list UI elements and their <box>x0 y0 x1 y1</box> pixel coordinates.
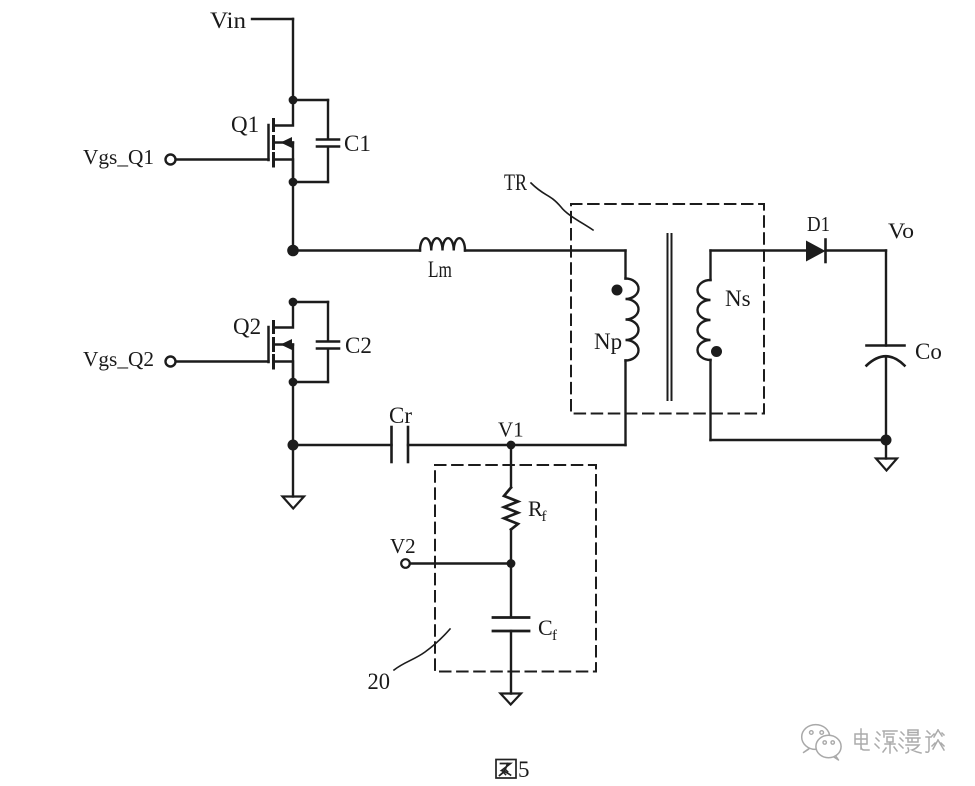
watermark text 电源漫谈 <box>855 729 944 753</box>
svg-text:D1: D1 <box>807 212 830 236</box>
wire C1 bottom to source node <box>293 181 328 183</box>
resistor Rf <box>504 488 518 530</box>
terminal Vgs_Q1 (circle) <box>166 155 176 165</box>
svg-text:Co: Co <box>915 339 942 364</box>
node output bottom junction (dot) <box>881 435 892 446</box>
wire Vgs_Q2 to gate <box>176 360 269 362</box>
wire Ns top to diode <box>711 249 807 251</box>
svg-text:Q2: Q2 <box>233 314 261 339</box>
wire C1 lower lead <box>327 147 329 182</box>
ground (output) <box>876 459 897 471</box>
terminal Vgs_Q2 (circle) <box>166 357 176 367</box>
wire C2 lower lead <box>327 349 329 382</box>
glyph 漫 <box>899 730 921 753</box>
body arrow <box>281 339 293 350</box>
svg-text:TR: TR <box>504 170 528 195</box>
wire Vo corner down to Co <box>885 251 887 346</box>
glyph 源 <box>875 731 897 753</box>
inductor Lm <box>420 238 465 250</box>
glyph 谈 <box>926 730 944 752</box>
wire Q1 source to midpoint <box>292 182 294 251</box>
node junction Q1 drain (dot) <box>289 96 298 105</box>
capacitor Co (polarized) <box>867 344 905 347</box>
wire C2 upper lead <box>327 302 329 341</box>
svg-text:f: f <box>552 628 557 644</box>
ground (feedback) <box>501 694 522 705</box>
polarity dot Np <box>612 285 623 296</box>
transformer core <box>667 234 669 400</box>
leader 20 <box>394 629 450 670</box>
wire Cr to Np bottom <box>408 444 626 446</box>
wire V2 node to Cf <box>510 564 512 618</box>
svg-text:Lm: Lm <box>428 257 452 282</box>
svg-text:f: f <box>542 509 547 525</box>
node V2 junction (dot) <box>507 559 516 568</box>
wire Q1 top to C1 branch <box>293 99 328 101</box>
capacitor C1 <box>317 138 339 141</box>
svg-text:Vgs_Q2: Vgs_Q2 <box>83 347 154 371</box>
wire Cf to ground <box>510 631 512 694</box>
transistor Q2 <box>269 302 294 382</box>
source lead <box>275 160 293 183</box>
node junction Q2 source (dot) <box>289 378 298 387</box>
body lead <box>275 343 293 345</box>
body-source tie <box>292 345 294 383</box>
svg-text:Np: Np <box>594 329 622 354</box>
winding Np <box>624 251 626 279</box>
wire ground node to Cr <box>293 444 392 446</box>
wire to output ground <box>885 440 887 459</box>
wire V2 terminal to node <box>410 562 511 564</box>
wire C2 bottom to source node <box>293 381 328 383</box>
diode D1 <box>806 241 826 262</box>
node ground junction (dot) <box>288 440 299 451</box>
feedback box 20 dashed <box>435 465 596 672</box>
node V1 (dot) <box>507 441 516 450</box>
wire midpoint to Lm <box>293 249 420 251</box>
drain lead <box>275 302 293 328</box>
channel segments <box>272 120 275 131</box>
channel segments <box>272 322 275 333</box>
svg-text:V2: V2 <box>390 534 416 558</box>
svg-text:Vin: Vin <box>210 8 247 33</box>
svg-text:Vo: Vo <box>888 218 914 243</box>
svg-text:V1: V1 <box>498 418 524 442</box>
svg-text:Cr: Cr <box>389 403 412 428</box>
drain lead <box>275 100 293 126</box>
wire secondary bottom rail <box>711 439 887 441</box>
wire C1 upper lead <box>327 100 329 139</box>
svg-text:C2: C2 <box>345 333 372 358</box>
body-source tie <box>292 143 294 183</box>
node midpoint junction (big dot) <box>287 245 299 257</box>
gate bar <box>267 327 270 362</box>
transistor Q1 <box>269 100 294 182</box>
source lead <box>275 362 293 383</box>
leader TR <box>531 183 593 230</box>
body lead <box>275 141 293 143</box>
wire to ground symbol <box>292 445 294 497</box>
capacitor Cf <box>493 616 529 619</box>
polarity dot Ns <box>711 346 722 357</box>
caption 图5 <box>496 760 516 779</box>
terminal V2 (circle) <box>401 559 410 568</box>
winding Ns <box>709 251 711 281</box>
svg-text:Ns: Ns <box>725 286 751 311</box>
wire Q2 top to C2 branch <box>293 301 328 303</box>
gate bar <box>267 125 270 160</box>
capacitor C2 <box>317 340 339 343</box>
node junction Q1 source (dot) <box>289 178 298 187</box>
wire Lm to Np <box>465 249 626 251</box>
ground (left) <box>283 497 305 509</box>
svg-text:5: 5 <box>518 757 530 782</box>
wire diode to Vo corner <box>826 249 887 251</box>
wire V1 down to Rf <box>510 445 512 488</box>
watermark logo bubbles <box>802 725 841 760</box>
wire Vin vertical to Q1 drain node <box>292 19 294 100</box>
wire Vgs_Q1 to gate <box>176 158 269 160</box>
svg-text:C: C <box>538 615 553 640</box>
capacitor Cr <box>390 427 393 462</box>
body arrow <box>281 137 293 148</box>
wire Rf to V2 node <box>510 530 512 564</box>
wire Q2 source down to ground node <box>292 382 294 445</box>
svg-text:20: 20 <box>368 669 391 694</box>
transformer TR dashed box <box>571 204 764 414</box>
svg-text:Vgs_Q1: Vgs_Q1 <box>83 145 154 169</box>
wire Vin horizontal <box>252 18 293 20</box>
node junction Q2 drain (dot) <box>289 298 298 307</box>
svg-text:Q1: Q1 <box>231 112 259 137</box>
wire Co bottom <box>885 357 887 441</box>
svg-text:C1: C1 <box>344 131 371 156</box>
glyph 电 <box>855 729 869 750</box>
